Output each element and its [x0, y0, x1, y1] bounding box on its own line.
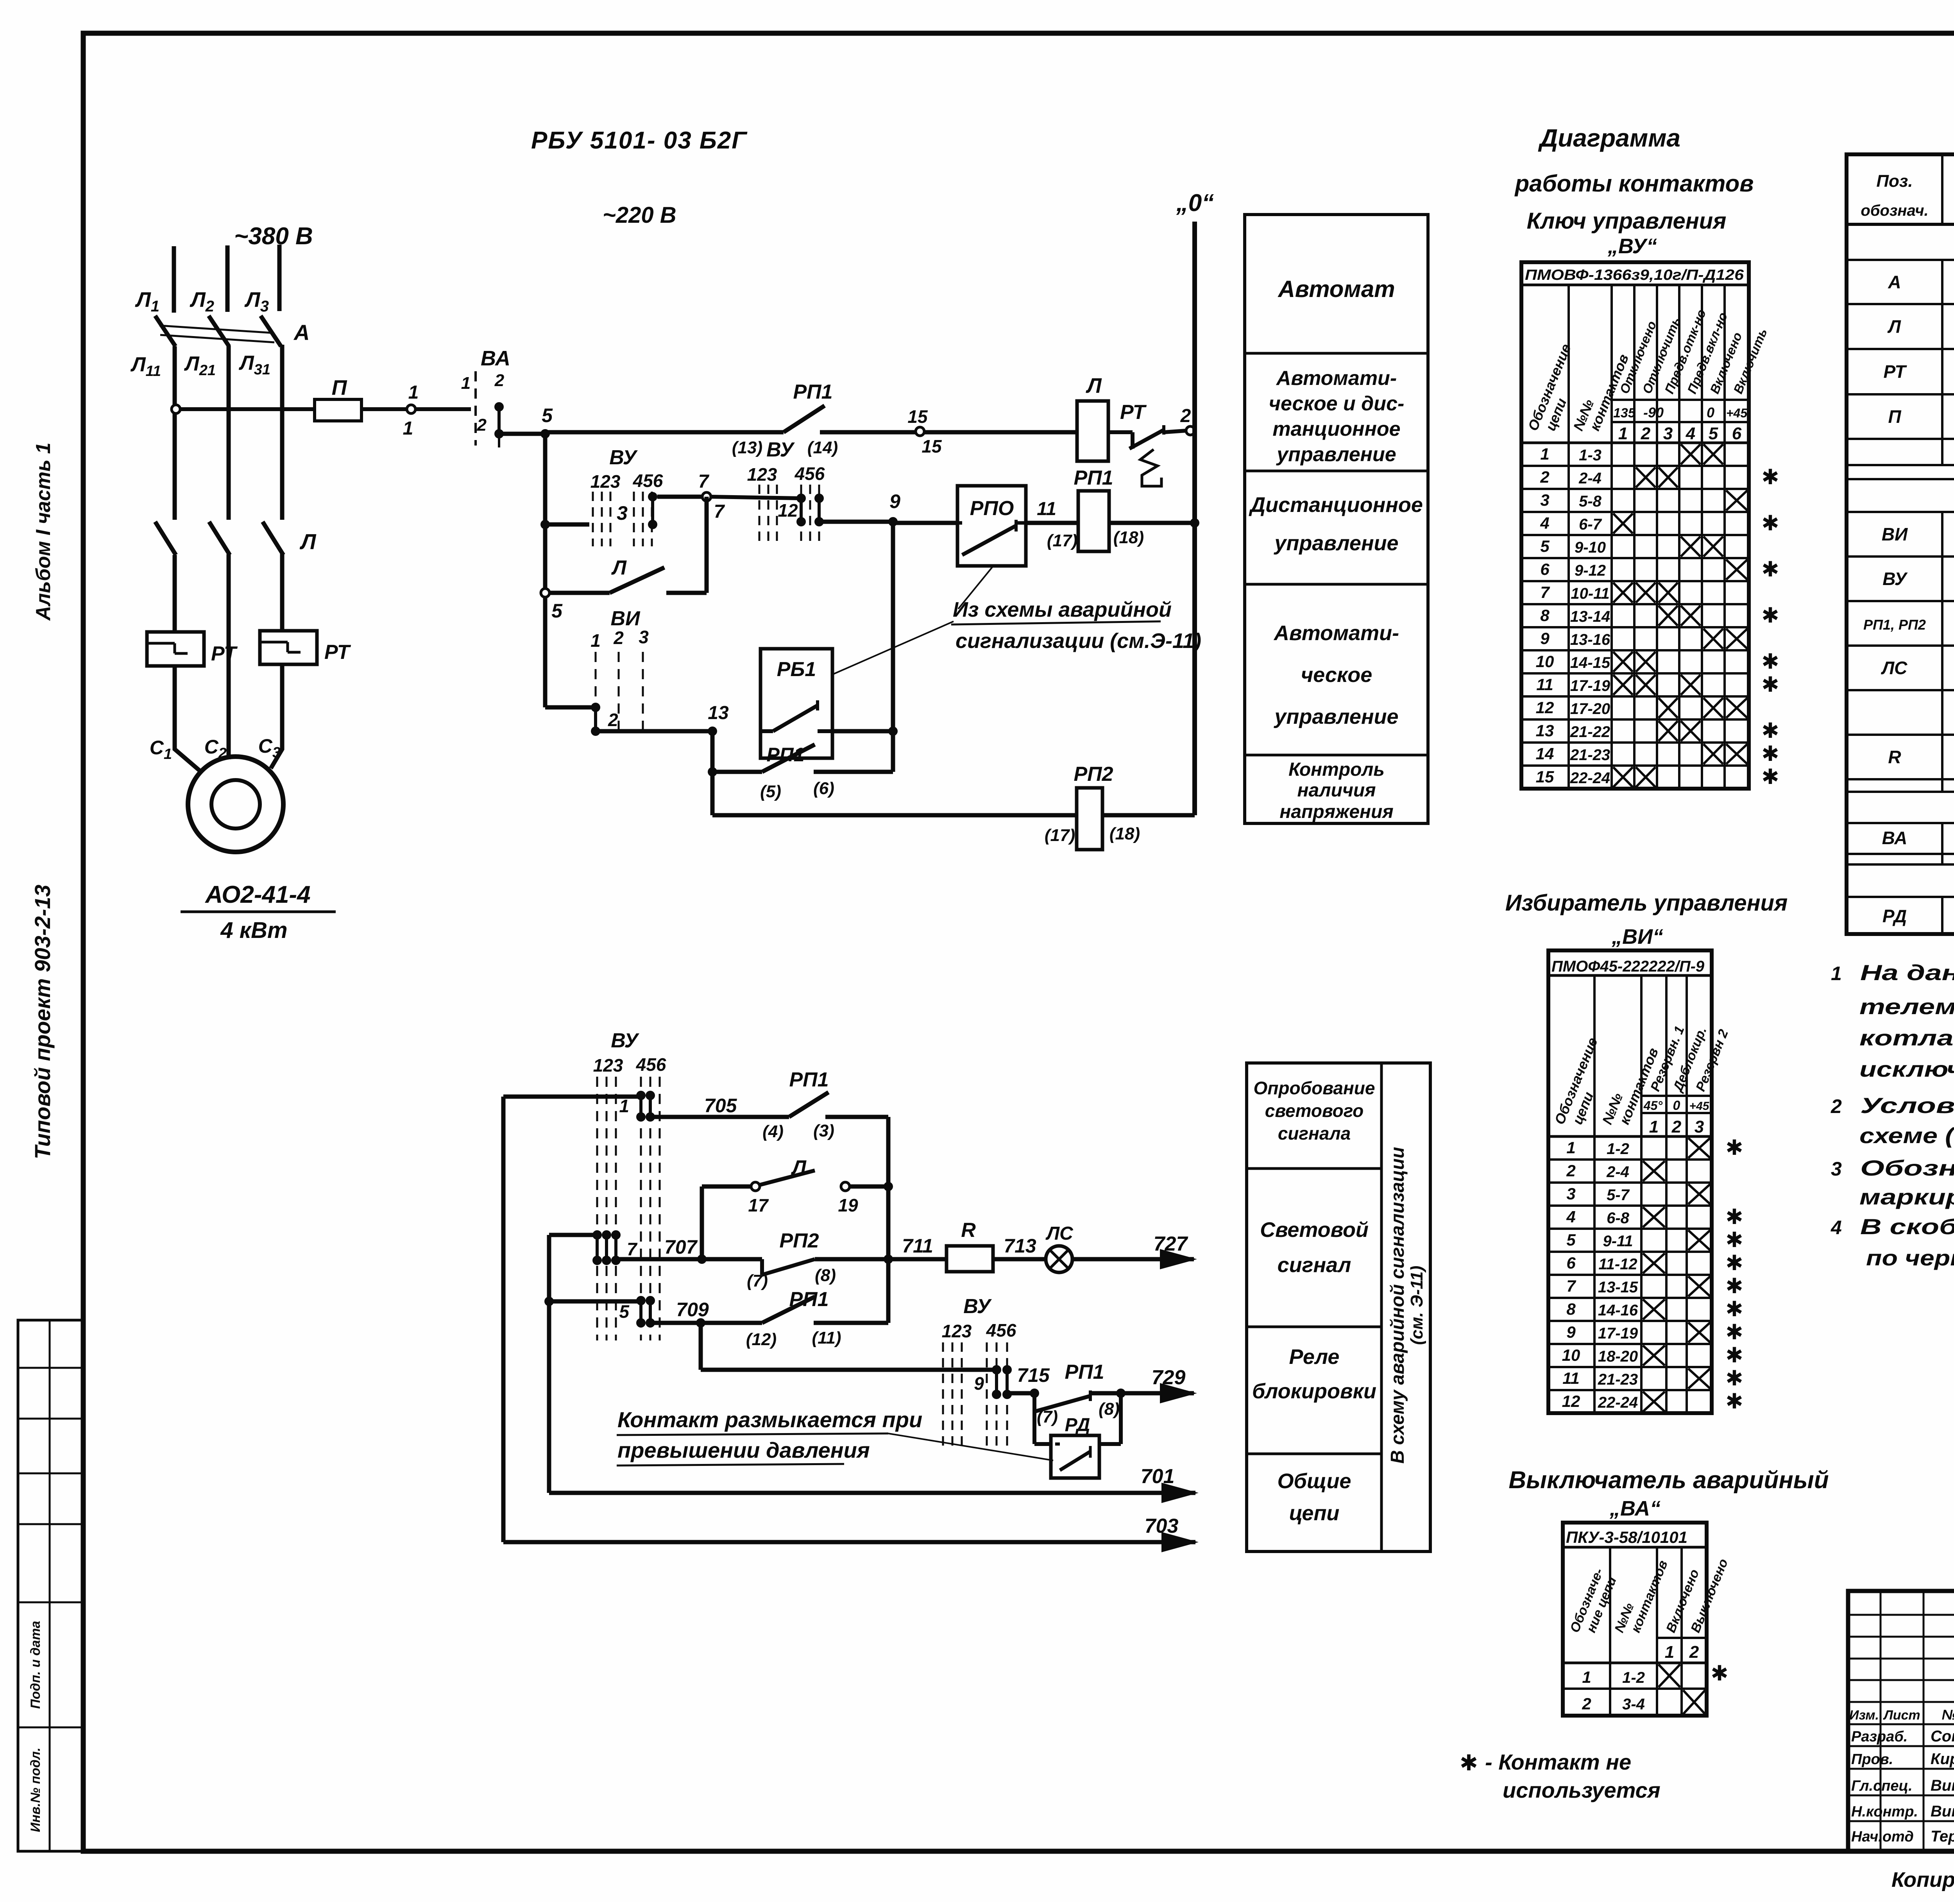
contactor coil L: [1077, 374, 1108, 461]
svg-text:4: 4: [1540, 514, 1549, 532]
svg-text:Типовой проект 903-2-13: Типовой проект 903-2-13: [30, 885, 55, 1160]
svg-text:15: 15: [907, 406, 928, 427]
svg-text:Реле: Реле: [1289, 1345, 1340, 1369]
svg-text:713: 713: [1004, 1235, 1036, 1257]
svg-text:РТ: РТ: [1883, 361, 1907, 382]
svg-text:Викманис: Викманис: [1931, 1777, 1954, 1794]
svg-text:ВИ: ВИ: [611, 607, 641, 630]
svg-text:456: 456: [986, 1320, 1016, 1340]
svg-text:В схему аварийной сигнализац: В схему аварийной сигнализации: [1387, 1147, 1408, 1464]
svg-text:2: 2: [608, 710, 618, 730]
svg-text:9-11: 9-11: [1603, 1233, 1633, 1250]
svg-text:4: 4: [1686, 424, 1695, 443]
left margin rotated text: Альбом I часть 1: [32, 442, 55, 621]
svg-text:6-8: 6-8: [1607, 1210, 1630, 1227]
svg-text:✱: ✱: [1761, 558, 1779, 581]
svg-text:7: 7: [714, 501, 725, 522]
svg-text:7: 7: [627, 1239, 638, 1259]
svg-text:45°: 45°: [1643, 1099, 1663, 1113]
svg-text:Автомати-: Автомати-: [1273, 621, 1399, 645]
svg-text:(18): (18): [1113, 528, 1144, 547]
svg-text:17-19: 17-19: [1570, 677, 1610, 694]
svg-text:123: 123: [590, 471, 621, 492]
svg-text:1: 1: [408, 382, 419, 403]
table VA emergency switch contact diagram: [1563, 1523, 1731, 1716]
wire vertical junction B: [886, 1117, 891, 1323]
svg-text:711: 711: [902, 1235, 933, 1257]
svg-text:715: 715: [1017, 1364, 1050, 1386]
wire VU2 to node 9: [819, 520, 893, 524]
svg-text:✱: ✱: [1761, 512, 1779, 535]
svg-text:Альбом I часть 1: Альбом I часть 1: [32, 442, 55, 621]
svg-text:„ВА“: „ВА“: [1609, 1497, 1661, 1520]
svg-text:котлам, для второго насоса: котлам, для второго насоса схема аналоги…: [1859, 1025, 1954, 1050]
svg-text:727: 727: [1154, 1233, 1188, 1255]
svg-text:R: R: [1888, 747, 1901, 767]
svg-text:РП1: РП1: [789, 1068, 828, 1091]
wire bus A feed to VU contact 1: [503, 1095, 641, 1099]
svg-text:(8): (8): [1099, 1399, 1120, 1419]
key VU group 1 (upper): [590, 446, 663, 546]
svg-text:3: 3: [1695, 1117, 1704, 1136]
svg-text:✱: ✱: [1725, 1344, 1743, 1367]
svg-text:Общие: Общие: [1278, 1469, 1351, 1493]
svg-text:21-22: 21-22: [1570, 723, 1610, 741]
svg-text:РТ: РТ: [211, 642, 238, 665]
element list section IV: [1882, 870, 1954, 927]
svg-text:9: 9: [1566, 1323, 1576, 1341]
svg-text:(8): (8): [815, 1266, 836, 1285]
wire drop from 709 to blocking row: [701, 1323, 997, 1370]
svg-text:22-24: 22-24: [1570, 769, 1610, 787]
svg-text:используется: используется: [1503, 1778, 1661, 1802]
contact L auxiliary: [541, 557, 707, 622]
svg-text:Л: Л: [1085, 374, 1102, 397]
contact RP1 (13)(14): [732, 381, 916, 457]
wire phase lines upper: [174, 245, 279, 313]
svg-text:4: 4: [1566, 1208, 1575, 1226]
svg-text:светового: светового: [1265, 1101, 1364, 1121]
svg-text:707: 707: [664, 1236, 698, 1258]
svg-text:2: 2: [1831, 1095, 1842, 1117]
svg-text:9: 9: [974, 1373, 984, 1394]
thermal relay RT heater on phase 3: [260, 631, 351, 664]
svg-text:Нач.отд: Нач.отд: [1851, 1829, 1914, 1845]
svg-text:(13): (13): [732, 438, 762, 457]
wire 713 to lamp: [993, 1235, 1046, 1259]
svg-text:На данном листе дана схем: На данном листе дана схема управления эл…: [1860, 960, 1954, 985]
svg-text:Кириллов п: Кириллов п: [1931, 1750, 1954, 1768]
svg-text:А: А: [1888, 272, 1901, 292]
svg-text:(5): (5): [760, 782, 781, 801]
title: Diagramma raboty kontaktov: [1514, 124, 1754, 258]
svg-text:5: 5: [619, 1301, 630, 1322]
svg-text:Гл.спец.: Гл.спец.: [1851, 1778, 1913, 1794]
svg-text:РП1: РП1: [793, 381, 832, 403]
svg-text:Инв.№ подл.: Инв.№ подл.: [28, 1748, 43, 1832]
svg-text:(7): (7): [747, 1271, 768, 1290]
svg-text:(17): (17): [1047, 531, 1077, 550]
svg-text:наличия: наличия: [1297, 780, 1376, 801]
svg-text:22-24: 22-24: [1598, 1394, 1638, 1411]
svg-text:Диаграмма: Диаграмма: [1538, 124, 1680, 152]
note text: contact opens on overpressure: [617, 1407, 1053, 1466]
wire VA to node 5: [499, 432, 545, 436]
wire RP2 line: [712, 813, 1077, 818]
svg-text:✱: ✱: [1761, 650, 1779, 673]
svg-text:Л: Л: [1887, 317, 1901, 337]
svg-text:Автомат: Автомат: [1277, 276, 1395, 302]
wires into motor: [175, 664, 282, 771]
table VU key contact diagram: [1521, 262, 1779, 789]
svg-text:Световой: Световой: [1260, 1218, 1369, 1242]
svg-text:Л: Л: [299, 529, 317, 554]
svg-text:танционное: танционное: [1272, 418, 1400, 440]
wire 715 line: [1007, 1361, 1104, 1398]
key VU group 2 (upper): [747, 438, 825, 546]
svg-text:456: 456: [633, 471, 663, 491]
svg-text:сигнал: сигнал: [1278, 1253, 1351, 1277]
svg-text:7: 7: [1540, 583, 1550, 601]
svg-text:14-15: 14-15: [1570, 654, 1610, 671]
svg-text:10: 10: [1536, 652, 1554, 671]
svg-text:Лист: Лист: [1882, 1708, 1920, 1723]
svg-text:ПМОФ45-222222/П-9: ПМОФ45-222222/П-9: [1551, 958, 1705, 975]
wire VU to node 7: [657, 495, 702, 499]
svg-text:456: 456: [636, 1054, 666, 1075]
svg-text:2: 2: [477, 415, 487, 435]
svg-text:8: 8: [1566, 1300, 1576, 1318]
lamp LS: [1045, 1223, 1074, 1272]
svg-text:12: 12: [1536, 698, 1554, 717]
wire 703 arrow: [503, 1515, 1199, 1552]
node 5: [540, 404, 553, 438]
title block (stamp): [1848, 1591, 1954, 1851]
svg-text:(12): (12): [746, 1330, 777, 1349]
key VU group 2 (blocking): [942, 1295, 1016, 1446]
svg-text:15: 15: [1536, 768, 1554, 786]
wire node5 branch to VI: [545, 705, 591, 710]
svg-text:17: 17: [748, 1195, 769, 1215]
svg-text:РП2: РП2: [779, 1229, 819, 1252]
svg-text:✱: ✱: [1725, 1136, 1743, 1160]
svg-text:(6): (6): [813, 779, 834, 798]
wire coil RP1 to zero bus: [1109, 518, 1199, 528]
wire 705 line with contact RP1 (4)(3): [650, 1068, 888, 1141]
svg-text:✱: ✱: [1725, 1321, 1743, 1344]
svg-text:123: 123: [747, 464, 777, 485]
svg-text:Терехов: Терехов: [1931, 1828, 1954, 1845]
wire node5 vertical drop: [543, 434, 548, 707]
svg-text:~220 В: ~220 В: [603, 202, 676, 228]
svg-text:1: 1: [619, 1096, 629, 1116]
svg-text:123: 123: [593, 1055, 623, 1075]
node 13: [708, 703, 729, 736]
function column (upper) box: [1245, 215, 1428, 823]
svg-text:5-8: 5-8: [1579, 493, 1602, 510]
svg-text:✱: ✱: [1761, 719, 1779, 743]
svg-text:13-16: 13-16: [1570, 631, 1610, 648]
svg-text:ПМОВФ-1366з9,10г/П-Д126: ПМОВФ-1366з9,10г/П-Д126: [1525, 267, 1744, 283]
zero bus label: [1176, 190, 1214, 217]
labels L11 L21 L31: [130, 352, 270, 379]
motor AO2-41-4: [188, 757, 283, 852]
node 7: [698, 471, 725, 522]
resistor R: [947, 1219, 993, 1272]
function column (lower) box: [1247, 1063, 1430, 1551]
svg-text:(11): (11): [812, 1328, 841, 1347]
svg-text:1-3: 1-3: [1579, 447, 1601, 464]
svg-text:+45: +45: [1726, 406, 1748, 420]
svg-text:(18): (18): [1109, 824, 1140, 843]
wire bus D branch to VU contact 5: [544, 1297, 639, 1306]
svg-text:РД: РД: [1882, 906, 1907, 926]
svg-text:701: 701: [1141, 1465, 1175, 1488]
function column lower texts: [1252, 1078, 1376, 1525]
svg-text:1: 1: [1618, 424, 1628, 443]
svg-text:управление: управление: [1276, 443, 1396, 466]
pressure relay RD branch: [1034, 1393, 1121, 1478]
svg-text:управление: управление: [1273, 705, 1398, 728]
svg-text:П: П: [332, 376, 347, 399]
svg-text:456: 456: [794, 463, 825, 484]
svg-text:Л: Л: [611, 557, 627, 579]
svg-text:РТ: РТ: [1120, 401, 1147, 424]
svg-text:2: 2: [1689, 1643, 1699, 1662]
svg-text:12: 12: [1562, 1392, 1580, 1410]
footnote: contact not used: [1460, 1750, 1661, 1802]
element list section II: [1863, 486, 1954, 777]
svg-text:15: 15: [922, 436, 942, 456]
contact RP2 (7)(8): [747, 1229, 893, 1290]
svg-text:1: 1: [1649, 1117, 1659, 1136]
svg-text:Соколова: Соколова: [1931, 1728, 1954, 1745]
contact RP1 (7)(8) blocking: [1034, 1389, 1126, 1426]
svg-text:1-2: 1-2: [1607, 1140, 1629, 1158]
wire 707 line: [616, 1236, 762, 1264]
wire phase lines mid: [175, 345, 282, 520]
svg-text:7: 7: [1566, 1277, 1576, 1295]
svg-text:РП2: РП2: [1074, 763, 1113, 786]
svg-text:5: 5: [1540, 537, 1550, 555]
svg-text:1: 1: [1566, 1138, 1575, 1157]
svg-text:схеме (см. Э-4).: схеме (см. Э-4).: [1859, 1123, 1954, 1148]
left margin stamp boxes: [18, 1320, 83, 1851]
circuit breaker A (automatic switch): [155, 316, 310, 346]
key VU group (signal circuit): [592, 1029, 666, 1340]
svg-text:✱: ✱: [1761, 604, 1779, 627]
svg-text:Из схемы аварийной: Из схемы аварийной: [953, 598, 1172, 621]
wire node7 to VU2: [710, 497, 801, 498]
svg-text:Л: Л: [791, 1156, 807, 1179]
wire 709 line with contact RP1 (12)(11): [650, 1288, 888, 1349]
svg-text:~380 В: ~380 В: [234, 223, 313, 250]
svg-text:ВА: ВА: [1882, 828, 1907, 848]
svg-text:РД: РД: [1065, 1415, 1090, 1435]
svg-text:Подп. и дата: Подп. и дата: [28, 1621, 43, 1709]
left margin rotated label: Подп. и дата: [28, 1621, 43, 1709]
svg-text:РТ: РТ: [324, 641, 351, 664]
svg-text:5: 5: [542, 404, 553, 426]
svg-text:Избиратель управления: Избиратель управления: [1505, 890, 1788, 916]
svg-text:0: 0: [1673, 1098, 1680, 1113]
relay RB1 box: [760, 649, 832, 758]
svg-text:17-19: 17-19: [1598, 1325, 1638, 1342]
label ~380 V: [234, 223, 313, 250]
svg-text:Обозначение „ ○ “ соответству: Обозначение „ ○ “ соответствует заводско…: [1860, 1156, 1954, 1180]
wire 727 arrow: [1072, 1233, 1197, 1269]
svg-text:(4): (4): [762, 1122, 784, 1141]
svg-text:21-23: 21-23: [1570, 746, 1610, 764]
node L1 phase bus labels: [135, 288, 269, 315]
svg-text:Дистанционное: Дистанционное: [1249, 493, 1423, 517]
svg-text:РП1: РП1: [789, 1288, 828, 1311]
wire bus A vertical: [501, 1097, 506, 1542]
svg-text:(см. Э-11): (см. Э-11): [1407, 1266, 1426, 1345]
node 2 on zero bus: [1180, 406, 1195, 435]
title: Izbiratel upravleniya VI: [1505, 890, 1788, 948]
svg-text:блокировки: блокировки: [1252, 1380, 1376, 1403]
svg-text:В скобках указаны номера: В скобках указаны номера контактов реле: [1860, 1214, 1954, 1239]
svg-text:обознач.: обознач.: [1861, 202, 1928, 219]
svg-text:✱: ✱: [1725, 1274, 1743, 1298]
svg-text:П: П: [1888, 406, 1901, 427]
relay RPO box: [957, 486, 1026, 566]
svg-text:✱: ✱: [1761, 765, 1779, 789]
svg-text:исключением номера цепи клю: исключением номера цепи ключа „ВИ“ (см. …: [1859, 1057, 1954, 1081]
relay coil RP2: [1045, 763, 1140, 850]
texts below frame: [1891, 1863, 1954, 1894]
svg-text:ВУ: ВУ: [611, 1029, 639, 1052]
svg-text:11: 11: [1037, 499, 1056, 519]
svg-text:4 кВт: 4 кВт: [220, 918, 287, 943]
svg-text:Копир. Чуб: Копир. Чуб: [1891, 1868, 1954, 1891]
svg-text:(3): (3): [813, 1121, 834, 1140]
svg-text:9: 9: [1540, 629, 1550, 648]
svg-text:„ВИ“: „ВИ“: [1611, 925, 1663, 948]
title block texts: [1849, 1610, 1954, 1853]
svg-text:„0“: „0“: [1176, 190, 1214, 217]
node 15: [907, 406, 942, 456]
switch VA (emergency cam switch): [461, 347, 510, 447]
wire node 1 to switch VA: [415, 407, 471, 411]
svg-text:Разраб.: Разраб.: [1851, 1729, 1907, 1745]
table element list: [1847, 154, 1954, 934]
svg-text:5: 5: [551, 600, 563, 622]
svg-text:10: 10: [1562, 1346, 1580, 1364]
svg-text:РБУ 5101- 03 Б2Г: РБУ 5101- 03 Б2Г: [531, 127, 748, 154]
svg-text:6: 6: [1566, 1254, 1576, 1272]
title: Vyklyuchatel avariyny VA: [1508, 1467, 1829, 1520]
svg-text:11-12: 11-12: [1598, 1256, 1637, 1273]
wire node13 down to RP2 line: [710, 772, 715, 815]
svg-text:РП1: РП1: [1065, 1361, 1104, 1383]
svg-text:1: 1: [1540, 445, 1549, 463]
svg-text:13-14: 13-14: [1570, 608, 1610, 625]
svg-text:9: 9: [889, 490, 900, 512]
svg-text:1: 1: [403, 418, 413, 439]
svg-text:2: 2: [494, 371, 505, 390]
wire tap to fuse: [180, 407, 315, 411]
svg-text:Ключ управления: Ключ управления: [1527, 208, 1727, 234]
svg-text:Опробование: Опробование: [1254, 1078, 1375, 1098]
svg-text:Викманис: Викманис: [1931, 1803, 1954, 1820]
svg-text:сигнала: сигнала: [1278, 1123, 1351, 1143]
svg-text:11: 11: [1536, 675, 1553, 694]
svg-text:сигнализации (см.Э-11): сигнализации (см.Э-11): [956, 629, 1201, 653]
svg-text:ПКУ-3-58/10101: ПКУ-3-58/10101: [1566, 1528, 1687, 1546]
svg-text:маркировке блока управлени: маркировке блока управления.: [1859, 1185, 1954, 1209]
wire VI to node 13: [596, 729, 712, 734]
svg-text:телем первого насоса пода: телем первого насоса подачи мазута к вод…: [1859, 994, 1954, 1019]
svg-text:✱: ✱: [1761, 465, 1779, 489]
svg-text:5-7: 5-7: [1607, 1186, 1630, 1204]
svg-text:13-15: 13-15: [1598, 1279, 1638, 1296]
svg-text:3-4: 3-4: [1622, 1696, 1645, 1713]
contact L (17)(19) signal: [702, 1156, 893, 1258]
svg-text:по чертежам КиП.: по чертежам КиП.: [1866, 1245, 1954, 1270]
contact RP1 (5)(6): [708, 731, 893, 801]
svg-text:4: 4: [1831, 1217, 1842, 1238]
svg-text:№ докум.: № докум.: [1942, 1707, 1954, 1723]
svg-text:ВУ: ВУ: [766, 438, 795, 461]
svg-text:Пров.: Пров.: [1851, 1751, 1893, 1768]
svg-text:ВУ: ВУ: [609, 446, 638, 469]
svg-text:1: 1: [1665, 1643, 1674, 1662]
svg-text:(17): (17): [1045, 826, 1075, 845]
svg-text:РП1: РП1: [1074, 467, 1113, 489]
svg-text:ческое: ческое: [1301, 663, 1372, 687]
svg-text:превышении давления: превышении давления: [617, 1438, 870, 1462]
svg-text:10-11: 10-11: [1571, 585, 1609, 602]
svg-text:13: 13: [708, 703, 729, 723]
svg-text:21-23: 21-23: [1598, 1371, 1638, 1388]
svg-text:ческое и дис-: ческое и дис-: [1269, 392, 1405, 415]
svg-text:12: 12: [778, 500, 798, 521]
svg-text:705: 705: [704, 1095, 737, 1117]
svg-text:5: 5: [1709, 424, 1718, 443]
relay coil RP1: [1047, 467, 1144, 551]
contactor L main contacts: [155, 522, 317, 555]
svg-text:2: 2: [613, 628, 624, 648]
svg-text:✱: ✱: [1460, 1750, 1478, 1775]
fuse P: [315, 376, 361, 421]
svg-text:3: 3: [639, 627, 649, 647]
wire 701 arrow: [549, 1465, 1199, 1503]
function column upper texts: [1249, 276, 1423, 822]
svg-text:18-20: 18-20: [1598, 1348, 1638, 1365]
notes text block: [1831, 960, 1954, 1270]
svg-text:2: 2: [1540, 468, 1549, 486]
key VI selector (upper): [590, 607, 649, 736]
svg-text:3: 3: [1566, 1185, 1575, 1203]
svg-text:0: 0: [1707, 404, 1714, 421]
svg-text:(14): (14): [807, 438, 838, 457]
svg-text:цепи: цепи: [1289, 1501, 1340, 1525]
table VI selector contact diagram: [1548, 950, 1743, 1413]
wire 711 to resistor: [888, 1235, 947, 1259]
svg-text:Изм.: Изм.: [1849, 1708, 1879, 1723]
svg-text:3: 3: [1831, 1158, 1842, 1180]
svg-text:Контроль: Контроль: [1288, 759, 1385, 780]
svg-text:R: R: [961, 1219, 976, 1242]
motor nameplate text: [181, 881, 336, 943]
svg-text:✱: ✱: [1761, 673, 1779, 696]
svg-text:6: 6: [1540, 560, 1550, 578]
node 1: [403, 382, 419, 439]
svg-text:А: А: [293, 320, 310, 345]
svg-text:2: 2: [1671, 1117, 1682, 1136]
